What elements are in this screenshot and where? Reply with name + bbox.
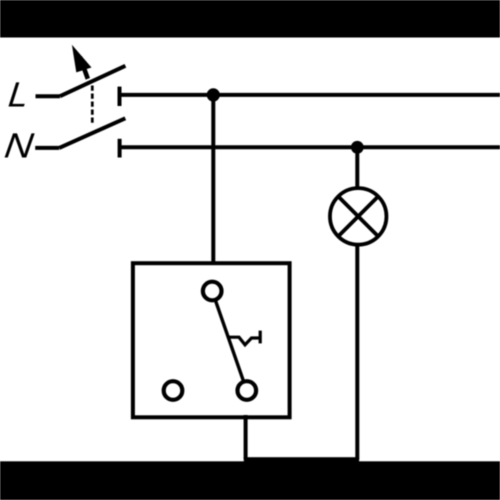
- wire: lamp to bottom: [355, 245, 359, 460]
- switch lever inside box: [216, 301, 244, 380]
- contact: common (top): [203, 282, 222, 301]
- node: junction on L bus: [207, 88, 220, 101]
- spring/detent squiggle on lever: [227, 337, 259, 345]
- actuation arrow (cursor) tail: [80, 57, 88, 79]
- detent end bar: [259, 331, 262, 344]
- wire: N lead: [35, 146, 59, 150]
- wire: switch box to bottom: [244, 415, 248, 460]
- top letterbox bar: [0, 0, 500, 38]
- actuation arrow (cursor) head: [72, 45, 92, 73]
- terminal bar L: [118, 87, 122, 106]
- contact: bottom-left: [164, 381, 183, 400]
- wire: L lead: [36, 94, 61, 98]
- wire: L bus: [120, 93, 500, 97]
- wire: drop from L bus to switch box: [211, 95, 215, 265]
- switch S1a lever (L pole, open): [60, 66, 125, 96]
- lamp E1 (circle with cross): [330, 188, 387, 245]
- mechanical coupling (dashed link between poles): [91, 86, 94, 126]
- wire: N bus: [120, 145, 500, 149]
- terminal bar N: [118, 139, 122, 158]
- switch unit box: [133, 263, 290, 417]
- svg-text:N: N: [2, 126, 36, 166]
- contact: bottom-right: [238, 381, 257, 400]
- wire: bottom connector between switch and lamp: [244, 457, 359, 462]
- wire: drop from N bus to lamp: [355, 147, 359, 190]
- bottom letterbox bar: [0, 461, 500, 500]
- node: junction on N bus: [351, 141, 364, 154]
- switch S1b lever (N pole, open): [59, 118, 125, 148]
